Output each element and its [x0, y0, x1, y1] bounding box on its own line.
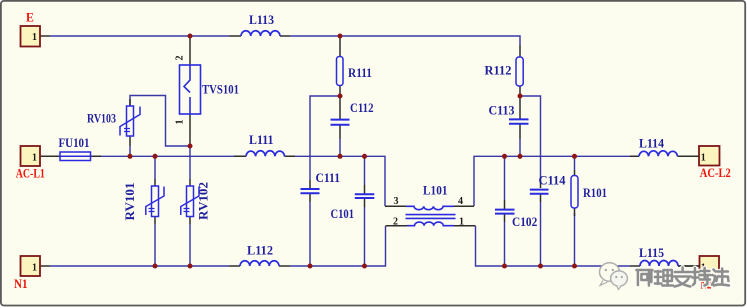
wire C113 bottom to rail — [519, 139, 521, 156]
svg-text:1: 1 — [175, 120, 186, 125]
svg-text:C111: C111 — [316, 171, 341, 185]
wire C102 vertical — [504, 156, 506, 266]
watermark text 阿理支持连 approximated strokes — [636, 268, 729, 287]
svg-text:C101: C101 — [331, 207, 355, 221]
node AC-L2 C102 junction — [502, 154, 507, 159]
connector N1 — [14, 256, 50, 291]
node N1 C111 junction — [308, 264, 313, 269]
svg-text:C113: C113 — [489, 104, 515, 118]
capacitor C101 — [331, 185, 375, 221]
capacitor C102 — [495, 200, 537, 229]
wire RV103 top branch — [130, 96, 190, 147]
wire R112 node96 right branch to C114 — [520, 96, 541, 266]
capacitor C114 — [530, 174, 566, 203]
fuse FU101 — [59, 136, 91, 161]
connector AC-L2 — [678, 146, 731, 180]
inductor L111 — [234, 133, 295, 156]
varistor RV102 — [181, 179, 211, 224]
wire AC-L1 rail left — [101, 156, 385, 206]
svg-text:L115: L115 — [639, 246, 664, 260]
wire AC-L2 rail right — [474, 156, 630, 206]
svg-text:4: 4 — [458, 196, 463, 207]
svg-text:C102: C102 — [512, 215, 537, 229]
wire R101 vertical — [574, 156, 576, 266]
svg-text:TVS101: TVS101 — [202, 83, 239, 97]
resistor R112 — [485, 45, 524, 96]
capacitor C113 — [489, 96, 529, 139]
svg-text:RV102: RV102 — [197, 182, 211, 220]
inductor L113 — [229, 13, 290, 36]
svg-text:C114: C114 — [539, 174, 567, 188]
node N2 R101 junction — [572, 264, 577, 269]
node R112-C113 junction — [518, 94, 523, 99]
node R111-C112 junction — [338, 94, 343, 99]
svg-text:FU101: FU101 — [59, 136, 90, 150]
svg-text:R112: R112 — [485, 64, 512, 78]
node N1 RV101 junction — [153, 264, 158, 269]
svg-text:L101: L101 — [423, 184, 448, 198]
node N2 C102 junction — [502, 264, 507, 269]
svg-text:1: 1 — [32, 263, 37, 274]
capacitor C112 — [331, 96, 374, 139]
TVS diode TVS101 — [175, 36, 240, 146]
inductor L112 — [229, 244, 290, 267]
svg-text:C112: C112 — [350, 101, 374, 115]
svg-text:L113: L113 — [249, 13, 274, 27]
node AC-L2 R101 junction — [572, 154, 577, 159]
svg-text:L112: L112 — [247, 244, 273, 258]
wire N2 rail — [476, 226, 631, 266]
node E-R111 junction — [338, 34, 343, 39]
node N1 RV102 junction — [188, 264, 193, 269]
wire C112 bottom to rail — [339, 138, 341, 156]
resistor R111 — [337, 37, 373, 96]
wire node96 left branch to C111 — [310, 96, 340, 266]
varistor RV101 — [123, 179, 164, 224]
connector AC-L1 — [16, 146, 101, 181]
svg-text:1: 1 — [32, 153, 37, 164]
svg-text:RV103: RV103 — [87, 112, 116, 126]
svg-text:1: 1 — [32, 32, 37, 43]
common-mode choke L101 — [385, 184, 476, 228]
svg-text:R101: R101 — [583, 186, 607, 200]
node AC-L1 RV101 junction — [153, 154, 158, 159]
svg-text:R111: R111 — [348, 66, 372, 80]
watermark text halo — [636, 268, 729, 287]
svg-text:3: 3 — [394, 196, 399, 207]
connector N2 — [678, 256, 719, 292]
svg-text:AC-L1: AC-L1 — [16, 166, 45, 181]
svg-text:L114: L114 — [639, 137, 665, 151]
svg-text:2: 2 — [175, 56, 186, 61]
connector E — [21, 10, 51, 47]
svg-text:AC-L2: AC-L2 — [700, 165, 731, 180]
node N2 C114 junction — [538, 264, 543, 269]
svg-text:L111: L111 — [249, 133, 274, 147]
wire TVS to RV102 link — [189, 146, 191, 179]
node TVS-RV103-RV102 junction — [188, 144, 193, 149]
svg-text:1: 1 — [459, 216, 464, 227]
varistor RV103 — [87, 99, 140, 146]
wire E net top rail — [50, 36, 520, 45]
node AC-L1 C112 junction — [338, 154, 343, 159]
wire N1 rail — [50, 226, 386, 266]
svg-text:RV101: RV101 — [123, 183, 137, 221]
node AC-L1 C101 junction — [362, 154, 367, 159]
svg-text:2: 2 — [393, 216, 398, 227]
wire RV101 vertical — [154, 156, 156, 266]
wire RV102 bottom — [189, 224, 191, 266]
node AC-L1 RV103 junction — [128, 154, 133, 159]
node N1 C101 junction — [362, 264, 367, 269]
node AC-L2 C113 junction — [518, 154, 523, 159]
svg-text:1: 1 — [701, 153, 706, 164]
svg-text:N1: N1 — [14, 276, 28, 291]
resistor R101 — [571, 170, 607, 216]
node E-TVS junction — [188, 34, 193, 39]
wire RV103 bottom — [129, 146, 131, 156]
inductor L115 — [630, 246, 700, 266]
capacitor C111 — [301, 171, 341, 202]
inductor L114 — [630, 137, 699, 157]
svg-text:E: E — [26, 10, 34, 25]
watermark wechat logo — [600, 263, 628, 290]
wire C101 vertical — [364, 156, 366, 266]
